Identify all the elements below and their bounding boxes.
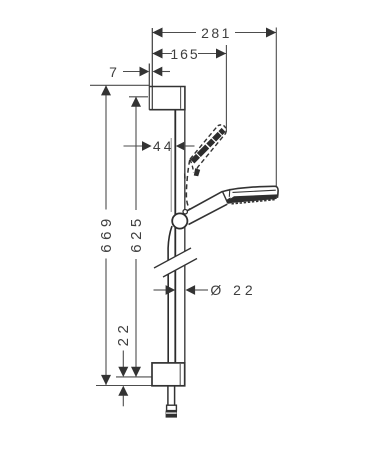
- svg-text:281: 281: [201, 25, 232, 41]
- svg-text:625: 625: [128, 214, 145, 253]
- extension line x=276.3 (281 dim, to head right edge): [275, 28, 277, 187]
- break mark white gap: [153, 248, 198, 277]
- dimension 625 bottom arrowhead: [131, 367, 141, 377]
- extension line y=85.3 (669 top, bracket top): [90, 84, 150, 86]
- hose nut band: [167, 405, 177, 410]
- solid handle upper edge: [184, 191, 223, 212]
- hose end tube left edge: [167, 386, 169, 405]
- dashed head bottom-left corner: [190, 160, 194, 173]
- dashed head spray face stipple band: [192, 130, 223, 162]
- dashed handle left short dash: [184, 174, 186, 181]
- solid head neck dark corner: [227, 197, 232, 204]
- dashed head lower-right edge: [196, 131, 226, 173]
- dimension 7 left tail and arrowhead: [123, 71, 140, 73]
- dimension 22 lower up arrowhead and line: [118, 386, 128, 396]
- svg-text:Ø 22: Ø 22: [210, 282, 256, 298]
- bar right edge: [184, 110, 186, 363]
- bottom bracket 3d edge: [179, 364, 181, 385]
- dashed head upper-left edge: [190, 126, 218, 159]
- dimension 22 upper line and down arrowhead: [122, 351, 124, 369]
- solid head neck inner line: [228, 189, 231, 197]
- extension line x=226.4 (165 dim, to dashed head tip): [225, 45, 227, 131]
- svg-text:669: 669: [98, 214, 115, 253]
- dimension 625 top arrowhead: [131, 97, 141, 107]
- solid head rim line: [233, 190, 276, 192]
- bottom bracket: [152, 363, 185, 386]
- extension line y=385.5 (bar bottom / 669 bottom): [96, 385, 152, 387]
- hose end tube right edge: [174, 386, 176, 405]
- dimension 165 left arrowhead: [152, 49, 162, 59]
- solid head spray face band: [228, 194, 277, 203]
- dimension 44 extension line (gray, bar axis): [170, 138, 172, 212]
- slider clip bump: [183, 210, 187, 214]
- dimension 44 right arrowhead and tail: [176, 141, 186, 151]
- top bracket: [149, 87, 185, 110]
- extension line y=96.8 (625 top): [129, 96, 148, 98]
- extension line x=152.3 (wall plane, continues as bracket inner edge): [151, 28, 153, 110]
- dimension 281 right arrowhead: [266, 28, 276, 38]
- hose from slider down: [168, 226, 172, 363]
- dimension 44 left tail and arrowhead: [124, 145, 143, 147]
- extension line x=149.3 (7 dim, continues as bracket outer edge): [148, 64, 150, 110]
- hose connector dark block: [166, 411, 177, 418]
- svg-text:22: 22: [115, 321, 132, 347]
- slider circle: [172, 213, 187, 228]
- svg-text:165: 165: [170, 46, 199, 62]
- dimension 625 line: [135, 97, 137, 210]
- dimension 669 top arrowhead: [101, 85, 111, 95]
- svg-text:7: 7: [109, 64, 117, 80]
- dimension 281 line: [153, 32, 277, 34]
- break mark upper diagonal: [154, 248, 191, 268]
- dimension diameter 22 right arrowhead and tail: [186, 285, 196, 295]
- solid handle lower edge: [189, 204, 228, 224]
- break mark lower diagonal: [163, 259, 197, 278]
- dimension 669 line: [105, 86, 107, 210]
- extension line y=376.9 (22 top / 625 bottom): [116, 376, 152, 378]
- bar left edge: [174, 110, 176, 363]
- hose connector white stripe: [166, 412, 177, 414]
- dimension 7 right arrowhead and tail: [153, 67, 163, 77]
- top bracket 3d edge: [180, 87, 182, 109]
- solid head neck front edge: [223, 192, 228, 203]
- solid head top edge: [223, 186, 279, 198]
- dimension 165 line: [153, 53, 227, 55]
- dimension 669 bottom arrowhead: [101, 375, 111, 385]
- dimension 281 left arrowhead: [152, 28, 162, 38]
- solid head spray fringe: [232, 200, 276, 204]
- dashed handle main edge: [186, 160, 189, 209]
- dashed neck dark blob: [194, 168, 200, 176]
- dashed head tip cap: [218, 125, 226, 131]
- dimension 165 right arrowhead: [216, 49, 226, 59]
- dimension diameter 22 left tail and arrowhead: [154, 289, 167, 291]
